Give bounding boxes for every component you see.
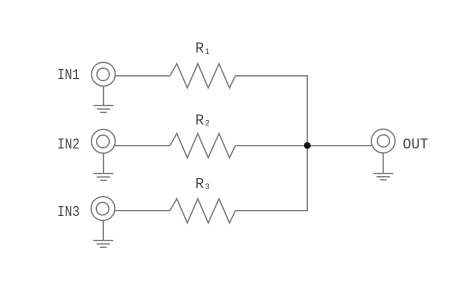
wire R2 to node [235, 145, 307, 147]
connector OUT [371, 129, 395, 153]
connector IN1 [92, 62, 116, 86]
svg-text:R1: R1 [195, 41, 210, 57]
node junction [304, 142, 311, 149]
wire R1 to node [235, 75, 308, 77]
ground IN3 [93, 220, 113, 247]
resistor R3 [170, 199, 235, 223]
connector IN3 [91, 197, 115, 221]
svg-text:IN2: IN2 [57, 137, 79, 153]
svg-text:R2: R2 [195, 114, 210, 130]
svg-text:R3: R3 [195, 177, 210, 193]
wire vertical bus [306, 75, 308, 211]
wire IN3 to R3 [115, 210, 170, 212]
wire node to OUT [307, 145, 372, 147]
ground IN1 [94, 86, 114, 113]
ground IN2 [94, 153, 114, 180]
svg-text:OUT: OUT [403, 137, 429, 153]
wire IN2 to R2 [115, 145, 170, 147]
wire IN1 to R1 [115, 75, 170, 77]
ground OUT [373, 153, 393, 180]
resistor R2 [170, 134, 235, 158]
wire R3 to node [235, 210, 308, 212]
svg-text:IN3: IN3 [57, 205, 79, 221]
connector IN2 [91, 129, 115, 153]
svg-text:IN1: IN1 [57, 68, 79, 84]
resistor R1 [170, 64, 235, 88]
